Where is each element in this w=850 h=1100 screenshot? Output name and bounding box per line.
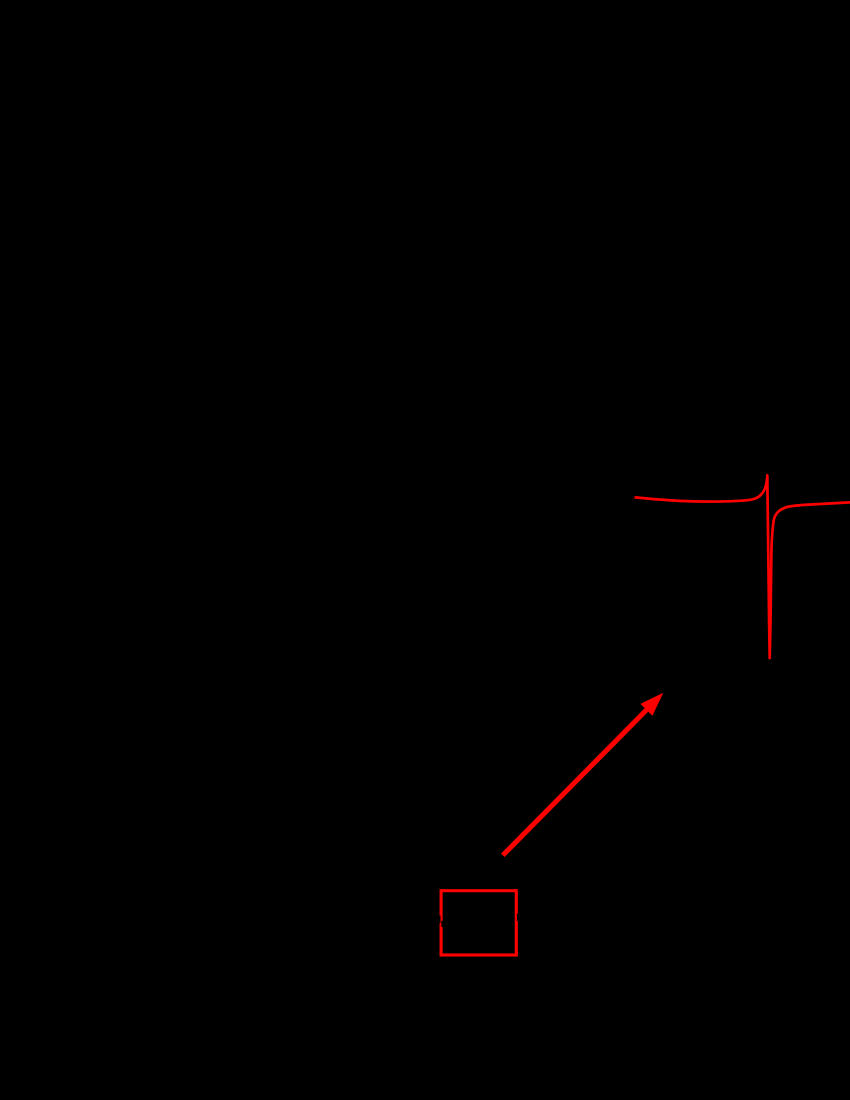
dispersion curve (red resonance trace) — [635, 475, 850, 658]
black text notch on right border of rectangle — [517, 914, 518, 922]
highlight rectangle — [441, 891, 516, 955]
arrow head — [640, 693, 663, 716]
black text notch on left border of rectangle — [438, 916, 440, 924]
arrow shaft — [503, 707, 649, 855]
